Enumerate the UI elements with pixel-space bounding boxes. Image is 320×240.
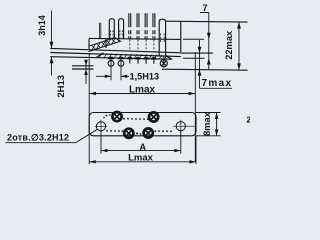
svg-text:2Н13: 2Н13 (56, 75, 67, 98)
svg-text:2: 2 (247, 116, 251, 125)
svg-text:1,5H13: 1,5H13 (130, 72, 160, 82)
svg-text:3h14: 3h14 (37, 15, 47, 36)
svg-text:2отв.∅3.2H12: 2отв.∅3.2H12 (7, 133, 69, 143)
svg-text:8max: 8max (202, 111, 212, 136)
svg-text:22max: 22max (224, 30, 234, 60)
svg-text:Lmax: Lmax (128, 153, 154, 164)
svg-text:7max: 7max (202, 78, 232, 89)
svg-text:7: 7 (202, 3, 207, 13)
svg-text:A: A (140, 142, 147, 152)
svg-text:Lmax: Lmax (129, 85, 156, 96)
